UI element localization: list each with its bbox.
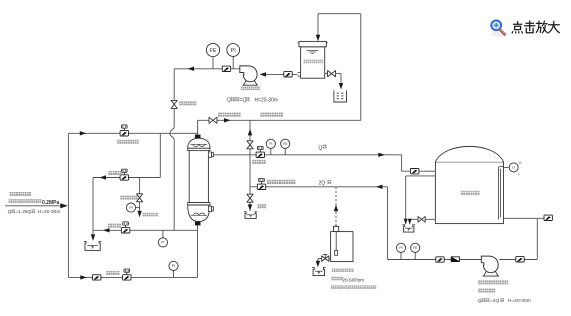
label Q=1.25Q H=20-30m feed duty xyxy=(8,209,61,215)
pipe tank T3 overflow xyxy=(406,176,436,224)
flow arrow left on bottom drain xyxy=(103,228,110,232)
svg-text:H: H xyxy=(519,160,522,165)
flow arrow down to floor drain B xyxy=(248,204,252,211)
label 变频控制 xyxy=(478,289,495,293)
valve motorized tank inlet xyxy=(411,169,419,174)
label 超滤反冲洗水泵 xyxy=(478,280,508,284)
pump P1 chemical cleaning pump xyxy=(240,66,258,85)
flow arrow left on discharge header xyxy=(188,67,195,71)
pipe flush header y=133.3 xyxy=(68,132,197,134)
label 排污 xyxy=(258,204,267,208)
pipe feed line y=277.4 xyxy=(68,276,197,278)
pipe raw-water blowdown branch x=139.6 xyxy=(139,178,141,212)
pipe product riser x=250 xyxy=(249,120,251,211)
nozzle tank T1 left outlet xyxy=(298,73,301,77)
svg-text:FE: FE xyxy=(210,48,217,54)
flow arrow left on backwash line xyxy=(376,185,383,189)
pipe feed inlet arrow line xyxy=(5,205,62,207)
check valve CV4 on suction xyxy=(516,257,524,262)
label Q反洗=2Q产 H=20-30m pump duty xyxy=(478,298,531,304)
water level mark in tank T1 xyxy=(307,50,319,53)
pipe dosing drain xyxy=(318,259,331,262)
pipe chemical-pump discharge header y=69 xyxy=(174,68,240,70)
flow arrow into floor drain C xyxy=(316,261,320,268)
flow arrow into pump suction xyxy=(260,72,267,76)
valve manual on tank T1 right drain xyxy=(325,70,341,76)
valve motorized 下排阀 xyxy=(121,222,129,233)
pipe product line y=154.8 xyxy=(214,154,402,156)
pipe return riser x=361 xyxy=(360,14,362,121)
instrument LI level indicator xyxy=(504,160,522,176)
pipe clean-water drop lower xyxy=(173,140,175,231)
instrument PI on product line xyxy=(266,139,275,155)
beaker sampling container with dots xyxy=(334,90,347,102)
pump P2 UF backwash pump xyxy=(481,256,499,276)
membrane right lower port xyxy=(208,206,213,211)
flow arrow down into tank T1 xyxy=(316,35,320,42)
instrument FE flow element top xyxy=(206,43,219,68)
pipe backwash line y=186.8 xyxy=(250,186,388,188)
flow arrow up dosing line xyxy=(334,205,338,212)
instrument FE on discharge xyxy=(411,243,420,259)
pipe outlet drop x=537.3 xyxy=(536,218,538,259)
label 运行冲洗阀 xyxy=(117,140,138,144)
pipe bottom drain line y=230.3 xyxy=(93,229,198,231)
label 具体加药量视现场情况而定 xyxy=(331,285,376,288)
valve motorized 进水阀 xyxy=(123,269,131,280)
svg-text:H=20-30m: H=20-30m xyxy=(255,98,278,104)
membrane module M1 UF column xyxy=(188,135,210,226)
label Q产 product flow xyxy=(318,145,326,152)
instrument PI on discharge xyxy=(396,243,405,259)
pipe crossing hop on clean-water drop xyxy=(170,127,174,140)
dip tube inside dosing tank xyxy=(335,232,338,256)
pipe pump discharge y=259.5 left xyxy=(388,259,482,261)
svg-text:0.2MPa: 0.2MPa xyxy=(42,200,59,206)
pipe tank T3 outlet y=218.3 xyxy=(504,217,545,219)
pipe product drop to tank xyxy=(402,155,436,171)
pipe shared drain drop x=93 xyxy=(92,178,94,235)
pipe dosing line dashed x=336 xyxy=(335,187,337,227)
tank T1 chemical solution tank 清洗溶药箱 xyxy=(298,41,328,78)
flow arrow feed into riser xyxy=(60,203,68,208)
label 清洗溶药箱 inside tank T1 xyxy=(304,60,324,64)
instrument PI gauge above feed line xyxy=(169,261,178,277)
icon magnifier xyxy=(491,20,508,36)
svg-text:PI: PI xyxy=(269,142,272,146)
pipe cleaning return header y=120.3 xyxy=(198,119,361,121)
valve manual tank T3 drain xyxy=(418,216,425,222)
valve manual on blowdown branch xyxy=(136,194,142,202)
valve motorized 反清洗进水阀 xyxy=(257,178,265,189)
pipe flush branch riser x=160.3 xyxy=(159,133,161,177)
valve manual V-top on return header xyxy=(209,117,217,123)
valve manual dosing outlet xyxy=(322,254,329,261)
instrument PI gauge on blowdown xyxy=(126,203,139,212)
text 点击放大 click to enlarge xyxy=(512,21,559,33)
standpipe inside tank T3 xyxy=(498,167,503,220)
flow arrow blowdown to raw tank xyxy=(137,211,141,218)
valve manual 清水 on clean-water drop xyxy=(171,100,177,108)
flow arrow drain into drain D xyxy=(408,219,412,225)
valve manual lower on product riser xyxy=(247,194,253,202)
pipe chemical-pump suction y=74.4 xyxy=(263,73,298,75)
pipe clean-water drop x=174.2 upper xyxy=(173,69,175,127)
membrane right upper port xyxy=(208,152,213,157)
svg-text:Q: Q xyxy=(318,145,322,151)
svg-text:PI: PI xyxy=(172,264,175,268)
flow arrow up product riser xyxy=(248,129,252,136)
label 清洗浓水区 xyxy=(218,113,241,117)
label 反清洗进水阀 xyxy=(267,180,295,184)
svg-text:=1.25Q: =1.25Q xyxy=(15,209,31,215)
svg-text:Q: Q xyxy=(478,298,482,304)
flow arrow right on feed line xyxy=(80,275,87,279)
label 清水进阀 xyxy=(179,101,196,105)
svg-text:2Q: 2Q xyxy=(319,181,326,187)
valve motorized 产水阀 xyxy=(256,146,264,157)
label 超滤水箱 inside tank T3 xyxy=(461,191,480,195)
tank T3 UF water tank 超滤水箱 xyxy=(435,146,503,223)
label 加药量20-50Ppm xyxy=(331,277,364,283)
tank T2 dosing tank 加药箱 xyxy=(331,232,353,262)
pipe membrane bottom drop x=197.5 xyxy=(197,225,199,277)
check valve CV3 on feed line xyxy=(93,275,101,280)
label 加药计量系统 xyxy=(332,269,354,272)
valve motorized 上排阀 xyxy=(120,169,128,180)
label 2Q产 backwash flow xyxy=(319,180,332,187)
valve motorized 运行冲洗阀 xyxy=(120,125,128,136)
svg-text:FE: FE xyxy=(413,246,418,250)
flow arrow right on flush header xyxy=(80,131,87,135)
check valve CV2 on pump suction xyxy=(284,72,292,77)
check valve CV1 on chemical pump discharge xyxy=(222,66,230,71)
label 变频控制压力小于0.2MPa xyxy=(9,199,60,206)
pipe tank T3 drain y=219.3 xyxy=(410,219,436,224)
svg-text:20-50Ppm: 20-50Ppm xyxy=(342,278,364,283)
pipe membrane top connection xyxy=(197,120,199,134)
instrument FE on product line xyxy=(281,139,290,155)
label 产水阀 xyxy=(252,160,265,164)
svg-text:PI: PI xyxy=(129,206,132,210)
label 化学清洗泵 under pump P1 xyxy=(241,87,260,91)
svg-text:Q: Q xyxy=(8,209,12,215)
flow arrow into beaker xyxy=(339,83,343,90)
check valve CV5 black on discharge xyxy=(451,256,460,262)
pipe upper drain line y=177.5 xyxy=(93,177,160,179)
label Q=Q H=20-30m pump P1 duty xyxy=(227,97,278,103)
pipe tank T1 fill line from return header xyxy=(318,14,361,36)
svg-text:PI: PI xyxy=(399,246,402,250)
flow arrow right on return header xyxy=(224,118,231,122)
valve manual on product riser xyxy=(247,141,253,149)
svg-text:FE: FE xyxy=(283,142,288,146)
valve end closure on outlet stub xyxy=(544,215,552,220)
label 回原水箱 xyxy=(143,213,158,217)
svg-text:LI: LI xyxy=(512,166,515,170)
svg-text:Q: Q xyxy=(227,98,231,104)
dosing pump head on tank xyxy=(334,225,339,232)
floor drain D xyxy=(402,225,415,232)
flow arrow into floor drain A xyxy=(91,234,95,241)
label 预处理来水 xyxy=(10,192,31,196)
svg-text:H=20-30m: H=20-30m xyxy=(38,209,61,215)
svg-text:PI: PI xyxy=(161,241,164,245)
svg-text:H=20-30m: H=20-30m xyxy=(508,298,531,304)
instrument PI gauge under bottom drain xyxy=(158,230,167,247)
pipe tank T1 drain drop xyxy=(340,74,342,83)
floor drain B xyxy=(244,212,257,219)
pipe backwash riser x=387.5 xyxy=(387,187,389,260)
label 清洗产水区 xyxy=(261,113,284,117)
flow arrow left on upper drain xyxy=(100,175,107,179)
valve closure on discharge xyxy=(436,257,444,262)
label 下排阀 xyxy=(108,224,121,228)
pipe pump suction y=259.5 right xyxy=(499,259,537,261)
label 进水阀 xyxy=(106,271,119,275)
flow arrow overflow into drain D xyxy=(404,219,408,225)
flow arrow right on product line xyxy=(378,153,385,157)
floor drain C xyxy=(312,268,326,276)
pipe left main riser x=68.4 xyxy=(67,133,69,277)
svg-text:PI: PI xyxy=(231,48,236,54)
label 原水排空 xyxy=(120,196,137,200)
svg-text:=2Q: =2Q xyxy=(490,298,500,304)
floor drain A xyxy=(84,241,101,250)
label 上排阀 xyxy=(109,171,122,175)
instrument PI pressure indicator top xyxy=(227,44,240,69)
